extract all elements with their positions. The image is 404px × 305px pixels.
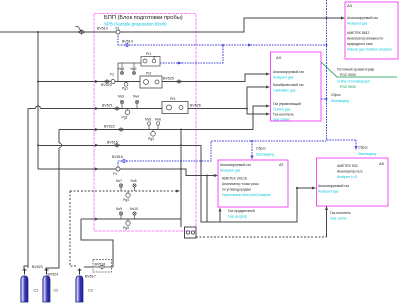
needle valve Nv9 [119,212,122,219]
svg-text:Nv5: Nv5 [145,118,151,122]
wire: AT vent drop [251,141,253,156]
valve BV514 (blue) [124,43,130,46]
svg-text:BV517: BV517 [85,275,96,279]
svg-text:Анализатор точки росы: Анализатор точки росы [222,182,259,186]
wire: blue vent header BV514 [118,33,327,45]
svg-text:Анализируемый газ: Анализируемый газ [347,16,378,20]
svg-text:Pr2: Pr2 [146,72,151,76]
svg-text:Pg1: Pg1 [122,87,128,91]
svg-text:Nv10: Nv10 [130,207,138,211]
svg-text:Поточный хроматограф: Поточный хроматограф [337,68,375,72]
svg-text:A3: A3 [347,3,353,8]
svg-text:BV524: BV524 [48,273,59,277]
arrow into A3 [341,17,345,20]
svg-text:C2: C2 [54,289,59,293]
gauge Pg5 [126,219,130,225]
wire: hop over row F on x59 [59,143,62,148]
needle valve Nv3 [120,100,123,108]
arrow into BPP row Pg5 [95,218,99,221]
cylinder C3 [76,269,83,303]
svg-text:BV518: BV518 [95,263,106,267]
svg-text:Nv4: Nv4 [133,95,139,99]
svg-text:БПП (Блок подготовки пробы): БПП (Блок подготовки пробы) [104,15,183,21]
wire: row F (carrier gas BV515) [38,145,314,222]
svg-text:Анализатор H₂S: Анализатор H₂S [337,170,363,174]
svg-text:C3: C3 [88,289,93,293]
svg-text:BV514: BV514 [122,40,133,44]
svg-text:Анализируемый газ: Анализируемый газ [318,184,349,188]
svg-text:природного газа: природного газа [347,42,373,46]
svg-text:Analyzed gas: Analyzed gas [273,76,294,80]
cylinder C2 [43,269,50,303]
svg-text:BV521: BV521 [102,104,113,108]
svg-text:Сброс: Сброс [331,93,341,97]
arrow into BPP row E [95,128,99,131]
analyzer box A5 (H2S analyzer) [317,158,389,206]
needle valve Nv6 [156,122,159,130]
component: outlet header box at BPP bottom [185,227,197,238]
svg-text:AT: AT [279,162,284,167]
svg-text:Pg2: Pg2 [122,116,128,120]
regulator Pr2 [140,76,162,88]
svg-text:Газ управляющий: Газ управляющий [273,102,301,106]
svg-text:по углеводородам: по углеводородам [222,188,251,192]
svg-text:Газ-носитель: Газ-носитель [330,211,351,215]
node: row D tee to AX input4 [246,108,248,110]
node: row C start [37,81,39,83]
wire: AT purge stub from U-line [219,209,221,222]
svg-text:BV525: BV525 [163,77,174,81]
node: junction AT feed tee [206,175,208,177]
svg-text:BV522: BV522 [104,125,115,129]
node: junction AT vent [251,140,253,142]
needle valve Nv1 [120,63,123,75]
analyzer box AX (in-line chromatograph) [271,52,322,121]
valve BV521 [114,107,120,110]
arrow on blue header [248,44,252,47]
gauge Pg1 [124,82,128,87]
svg-text:SPB (Sample preparation block): SPB (Sample preparation block) [104,22,167,27]
wire: carrier gas dashed header to A5 [196,236,327,238]
svg-text:F2: F2 [110,73,114,77]
svg-text:Pg3: Pg3 [148,137,154,141]
svg-text:PGC 9030: PGC 9030 [340,85,356,89]
valve BV525 [176,80,182,83]
wire: row E (control gas) [59,106,266,130]
node: row F start [37,144,39,146]
needle valve Nv2 [132,63,135,75]
svg-text:Hydrocarbon dew point Analyzer: Hydrocarbon dew point Analyzer [222,193,272,197]
valve pair row E [118,128,124,131]
wire: blue BV516 vent line [118,141,327,167]
svg-text:Nv3: Nv3 [118,95,124,99]
svg-text:Pr1: Pr1 [146,52,151,56]
cylinder C1 [21,266,28,302]
svg-text:Сброс: Сброс [358,146,368,150]
needle valve Nv10 [133,212,136,219]
node: junction Pr1 vent joins [222,44,224,46]
svg-text:Gas carrier: Gas carrier [273,118,291,122]
svg-text:BV520: BV520 [101,83,112,87]
arrow into BPP row F [95,144,99,147]
node: junction at blue header crossing [326,17,328,19]
svg-text:Nv9: Nv9 [116,207,122,211]
arrow into AX input3 [266,105,270,108]
arrow down into AT top [251,156,254,160]
svg-text:BV515: BV515 [107,141,118,145]
svg-text:Nv6: Nv6 [155,118,161,122]
wire: row C (F2/Pr2 train) [38,74,266,82]
regulator Pr3 [162,102,188,114]
valve BV520 [104,80,110,83]
svg-text:Control gas: Control gas [273,108,291,112]
svg-text:BV510: BV510 [97,27,108,31]
svg-text:Nv7: Nv7 [116,179,122,183]
svg-text:Pg5: Pg5 [123,226,129,230]
svg-text:In-line chromatograph: In-line chromatograph [337,80,370,84]
arrow into riser from Pg4 row [176,190,180,193]
needle valve Nv8 [133,184,136,191]
wire: row D (calibration gas, Pr3 train) [28,87,266,114]
needle valve Nv4 [135,100,138,108]
wire: riser to Pr1 [118,63,142,82]
svg-text:Discharging: Discharging [358,152,376,156]
wire: drop from AT feed to U-line [206,176,208,223]
green leader to chromatograph label [321,62,397,77]
svg-text:Nv2: Nv2 [131,67,137,71]
svg-text:Анализатор влажности: Анализатор влажности [347,37,383,41]
svg-text:A5: A5 [379,161,385,166]
needle valve Nv7 [119,184,122,191]
svg-text:Natural gas moisture analyzer: Natural gas moisture analyzer [347,48,393,52]
wire: BV518 purge loop [81,219,113,267]
svg-text:Nv1: Nv1 [119,67,125,71]
arrow up into A5 bottom [325,206,328,210]
wire: blue Pr1 vent [160,45,223,63]
node: junction A5 feed [296,187,298,189]
svg-text:Pg4: Pg4 [123,198,129,202]
svg-text:PGC 9030: PGC 9030 [340,73,356,77]
node: junction BV516 riser x181 [180,160,182,162]
svg-text:Газ-носитель: Газ-носитель [273,113,294,117]
wire: row F3 (sample to AT) [38,169,216,176]
analyzer box AT (dew point analyzer) [218,160,288,207]
wire: sample inlet line row A to A3 [0,18,343,32]
node: junction sample riser [37,31,39,33]
svg-text:Discharging: Discharging [256,153,274,157]
wire: AX vent stub [321,98,327,100]
svg-text:Калибровочный газ: Калибровочный газ [273,83,304,87]
svg-text:C1: C1 [34,289,39,293]
node: junction blue at BV514 [326,44,328,46]
svg-text:Discharging: Discharging [331,99,349,103]
arrow into AX input4 [266,113,270,116]
node: junction riser at F3 row [180,168,182,170]
svg-text:Analyzed gas: Analyzed gas [347,22,368,26]
filter F3 [116,167,120,171]
wire: blue main vent riser x326.5 [327,0,357,147]
wire: dashed drop to C3 [70,191,76,266]
svg-text:Nv8: Nv8 [131,179,137,183]
svg-text:AMETEK 241CE: AMETEK 241CE [222,177,248,181]
svg-text:AMETEK 5812: AMETEK 5812 [347,31,370,35]
needle valve Nv5 [147,122,150,130]
wire: row Pg5 [81,218,181,220]
svg-text:AMETEK 933: AMETEK 933 [337,164,358,168]
valve BV510 [76,27,86,35]
node: junction blue at AX vent [326,98,328,100]
arrow into BPP row C [95,80,99,83]
analyzer box A3 (moisture analyzer) [345,2,398,59]
arrow into BPP row D [95,107,99,110]
svg-text:BV516: BV516 [112,155,123,159]
wire: cylinder C1 feed (x28 drop) [24,109,28,270]
node: junction row F riser x181 [180,144,182,146]
arrow into AX input2 [266,86,270,89]
arrow on Pr1 vent [178,62,182,65]
filter F1 [116,30,120,34]
svg-text:F1: F1 [116,27,120,31]
gauge Pg4 [126,191,130,197]
svg-text:Analyzed gas: Analyzed gas [220,169,241,173]
filter F2 [111,80,115,84]
wire: vent riser x181 inside BPP [180,130,182,228]
svg-text:Сброс: Сброс [256,147,266,151]
svg-text:F3: F3 [113,172,117,176]
gauge Pg2 [125,109,130,115]
svg-text:Calibration gas: Calibration gas [273,89,296,93]
arrow into AT (analyzed gas) [214,174,218,177]
svg-text:Анализируемый газ: Анализируемый газ [273,70,304,74]
wire: hop over riser x38 on row D [36,106,41,109]
arrow vent discharge down [355,146,358,150]
svg-text:Analyzer H₂S: Analyzer H₂S [337,175,358,179]
node: junction row E riser x181 [180,129,182,131]
svg-text:Analyzed gas: Analyzed gas [318,190,339,194]
svg-text:AX: AX [276,55,282,60]
svg-text:Анализируемый газ: Анализируемый газ [220,163,251,167]
arrow into AX input1 [266,73,270,76]
svg-text:BV523: BV523 [32,265,43,269]
arrow into BPP row F3 [95,168,99,171]
svg-text:Gas carrier: Gas carrier [330,217,348,221]
svg-text:Gas purging: Gas purging [228,215,247,219]
enclosure BPP (sample preparation block) magenta box [94,14,196,232]
svg-text:Газ продувочный: Газ продувочный [228,209,255,213]
wire: sample riser x38 [37,32,39,169]
svg-text:Pr3: Pr3 [170,97,175,101]
wire: row Pg4 (purge, dashed) [70,190,178,192]
wire: cylinder C2 feed (x59 drop with hop) [46,130,59,271]
valve BV516 (blue) [121,159,127,162]
svg-text:BV526: BV526 [190,104,201,108]
regulator Pr1 [141,57,160,67]
gauge Pg3 [151,130,156,137]
valve pair row F [114,144,120,147]
arrow up into AT bottom [219,208,222,212]
valve BV518 in dashed box [93,260,112,273]
arrow into A5 (analyzed gas) [312,187,316,190]
